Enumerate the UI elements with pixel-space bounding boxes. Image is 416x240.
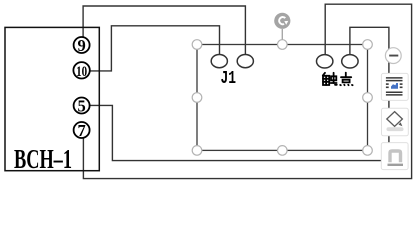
selection handle mid-right [363,93,373,103]
collapse minus button [385,48,401,64]
terminal 10 circled [73,62,89,80]
contact terminal a [317,55,333,68]
wire from terminal 10 to J1 coil terminal a [90,26,220,71]
relay box outline (selected shape) [197,45,368,151]
wire from contact terminal b down right column (behind buttons) [350,27,389,160]
device BCH-1 outline [5,27,99,170]
rotate handle icon [274,13,290,29]
wire from terminal 7 around right side to contact terminal a [83,4,411,178]
label chudian (contact) hand-drawn glyphs [323,73,353,86]
selection handle top-right [363,40,373,50]
wire from terminal 5 to contact terminal b (net along y160) [90,105,389,160]
relay coil terminal J1-b [237,55,253,68]
contact terminal b [342,55,358,68]
selection handle bottom-left [192,146,202,156]
glyph dian [345,73,347,77]
selection handle top-left [192,40,202,50]
svg-text:7: 7 [77,121,85,140]
selection handle bottom-right [363,146,373,156]
svg-text:10: 10 [76,64,87,80]
wire from terminal 9 to J1 coil terminal b [83,6,245,55]
svg-text:BCH–1: BCH–1 [14,144,72,174]
svg-text:5: 5 [77,96,85,115]
terminal 7 circled [74,121,90,140]
toolbar button shape/diamond [382,108,409,136]
toolbar button square/crop [381,143,408,170]
selection handle bottom-middle [278,146,288,156]
terminal 5 circled [74,96,90,115]
rotate handle stem [281,29,283,40]
svg-text:J1: J1 [220,69,236,89]
svg-text:9: 9 [77,36,85,55]
terminal 9 circled [74,36,90,55]
relay coil terminal J1-a [211,55,227,68]
selection handle top-middle [278,40,288,50]
selection handle mid-left [192,93,202,103]
glyph chu [323,73,325,76]
toolbar button report/image [381,73,408,100]
